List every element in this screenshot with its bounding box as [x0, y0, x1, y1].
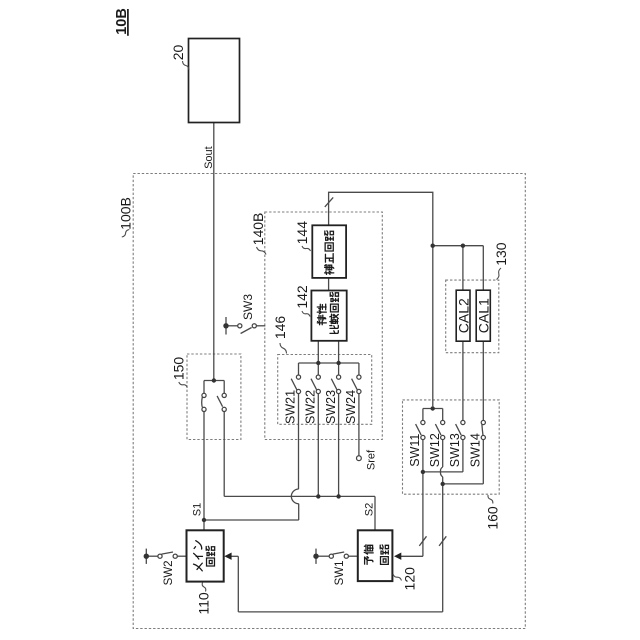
svg-text:Sout: Sout [203, 146, 215, 169]
svg-text:SW22: SW22 [304, 390, 318, 424]
svg-text:110: 110 [196, 592, 212, 615]
svg-text:Sref: Sref [365, 449, 377, 470]
svg-text:CAL1: CAL1 [475, 298, 491, 333]
svg-text:SW24: SW24 [344, 390, 358, 424]
svg-text:120: 120 [402, 567, 418, 591]
svg-text:SW2: SW2 [163, 560, 175, 585]
svg-text:SW3: SW3 [241, 294, 255, 320]
svg-text:S2: S2 [364, 503, 376, 516]
svg-text:144: 144 [294, 221, 310, 245]
svg-text:146: 146 [272, 316, 288, 340]
svg-text:160: 160 [484, 506, 500, 530]
svg-text:20: 20 [170, 45, 186, 61]
svg-text:SW23: SW23 [324, 390, 338, 424]
svg-text:SW12: SW12 [428, 433, 442, 467]
svg-text:150: 150 [171, 357, 187, 381]
svg-text:SW14: SW14 [469, 433, 483, 467]
svg-text:140B: 140B [250, 213, 266, 246]
svg-text:100B: 100B [118, 197, 134, 230]
svg-text:142: 142 [294, 285, 310, 309]
svg-text:S1: S1 [191, 503, 203, 516]
svg-text:SW11: SW11 [408, 434, 422, 467]
svg-text:130: 130 [493, 242, 509, 266]
svg-text:SW13: SW13 [448, 433, 462, 467]
svg-text:SW21: SW21 [284, 390, 298, 424]
svg-text:CAL2: CAL2 [455, 298, 471, 333]
svg-text:SW1: SW1 [334, 560, 346, 585]
